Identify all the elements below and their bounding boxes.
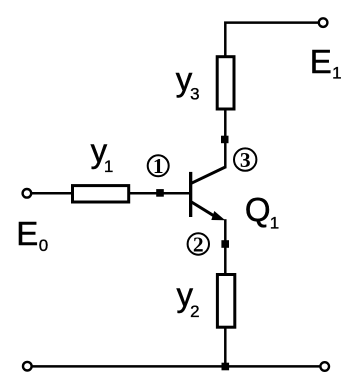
wire bottom rail bbox=[32, 365, 321, 368]
svg-text:2: 2 bbox=[193, 232, 204, 256]
resistor y3 bbox=[217, 57, 234, 109]
terminal bottom-right bbox=[320, 362, 329, 371]
svg-text:E: E bbox=[16, 215, 38, 252]
terminal E0 bbox=[23, 189, 32, 198]
svg-text:E: E bbox=[310, 43, 332, 80]
wire emitter vertical (Q1 emitter down to y2 top) bbox=[224, 219, 227, 274]
svg-text:3: 3 bbox=[190, 84, 199, 103]
resistor y2 bbox=[217, 275, 234, 328]
svg-text:3: 3 bbox=[240, 148, 251, 172]
node 3 junction bbox=[221, 136, 229, 144]
label Q1 bbox=[245, 191, 279, 233]
wire y2 bottom (y2 to bottom rail) bbox=[224, 328, 227, 366]
terminal E1 bbox=[319, 18, 328, 27]
label y3 bbox=[176, 60, 200, 103]
node 2 junction bbox=[221, 240, 229, 248]
wire collector (y3 bottom down to Q1 collector) bbox=[224, 110, 227, 168]
svg-text:0: 0 bbox=[39, 236, 48, 255]
resistor y1 bbox=[73, 186, 129, 202]
svg-text:1: 1 bbox=[153, 154, 164, 178]
node 3 marker (circled 3) bbox=[234, 148, 256, 172]
svg-text:Q: Q bbox=[245, 191, 271, 228]
label y2 bbox=[177, 276, 200, 321]
node 1 junction bbox=[156, 189, 164, 197]
svg-text:1: 1 bbox=[332, 64, 341, 83]
svg-text:1: 1 bbox=[270, 214, 279, 233]
wire top (y3 top to E1 terminal) bbox=[225, 23, 318, 56]
svg-text:1: 1 bbox=[104, 157, 113, 176]
wire base (E0 terminal to base of Q1) bbox=[30, 192, 190, 195]
label E0 bbox=[16, 215, 48, 255]
label y1 bbox=[91, 132, 114, 176]
transistor Q1 bbox=[189, 167, 226, 220]
label E1 bbox=[310, 43, 342, 83]
svg-text:2: 2 bbox=[190, 302, 199, 321]
node 2 marker (circled 2) bbox=[188, 232, 209, 256]
terminal bottom-left bbox=[23, 362, 32, 371]
junction bottom (y2 to bottom rail) bbox=[222, 363, 230, 371]
node 1 marker (circled 1) bbox=[148, 154, 169, 178]
